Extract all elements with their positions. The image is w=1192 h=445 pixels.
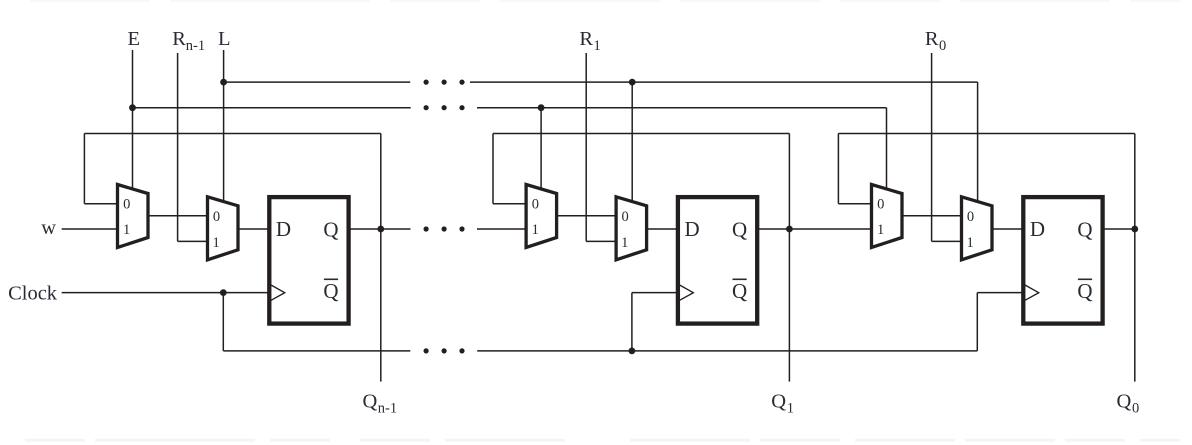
svg-text:Clock: Clock	[8, 282, 58, 304]
wire mux1 output to mux2 input 0 (stage Qn-1)	[148, 215, 208, 217]
wire into mux1 input 0 (stage Qn-1)	[84, 203, 117, 205]
svg-text:1: 1	[212, 235, 219, 251]
2-to-1 multiplexer (shift/load mux1, stage Q0)	[872, 185, 903, 248]
junction bottom clock line / stage Q1 up-leg	[629, 348, 636, 355]
faint cropped text line at top edge	[30, 0, 1180, 2]
svg-text:n-1: n-1	[378, 400, 397, 416]
ellipsis dot (E-bus)	[459, 105, 464, 110]
svg-text:Q: Q	[732, 279, 747, 303]
svg-text:L: L	[218, 28, 231, 50]
wire Q1 feedback left down-leg	[492, 134, 494, 204]
clock input triangle (stage Q1)	[680, 285, 694, 300]
wire E label down to mux1 select	[132, 50, 134, 189]
wire w input to mux1 input 1	[62, 228, 118, 230]
wire Q1 feedback vertical up from output node	[788, 134, 790, 230]
wire Clock up-leg (stage Q1)	[631, 293, 633, 351]
wire Q1 to mux1 input 1 (stage Q0)	[789, 228, 871, 230]
wire Qn-1 feedback top horizontal	[84, 133, 380, 135]
svg-text:Q: Q	[771, 391, 786, 413]
svg-text:Q: Q	[732, 217, 747, 241]
wire Clock bottom right segment	[477, 350, 977, 352]
wire R0 to mux2 input 1 (stage Q0)	[932, 240, 962, 242]
wire Rn-1 to mux2 input 1 (stage Qn-1)	[178, 240, 208, 242]
wire Clock down-leg to bottom distribution line	[222, 293, 224, 351]
ellipsis dot (E-bus)	[424, 105, 429, 110]
2-to-1 multiplexer (load mux2, stage Q0)	[962, 197, 993, 260]
wire Clock to flip-flop (stage Q0)	[977, 292, 1023, 294]
svg-text:0: 0	[877, 196, 884, 212]
wire into mux1 input 0 (stage Q1)	[493, 203, 526, 205]
ellipsis dot (clock line)	[424, 348, 429, 353]
ellipsis dot (clock line)	[442, 348, 447, 353]
wire L-bus end drop to mux2 select (stage Q0)	[977, 82, 979, 201]
2-to-1 multiplexer (shift/load mux1, stage Q1)	[526, 185, 557, 248]
svg-text:1: 1	[621, 235, 628, 251]
svg-text:D: D	[685, 217, 700, 241]
svg-text:Q: Q	[1077, 217, 1092, 241]
wire Qn-1 feedback vertical up from output node	[380, 134, 382, 230]
ellipsis dot (shift chain)	[459, 226, 464, 231]
wire R1 to mux2 input 1 (stage Q1)	[586, 240, 616, 242]
ellipsis dot (shift chain)	[442, 226, 447, 231]
D flip-flop (stage Q1)	[678, 197, 757, 324]
wire mux2 output to D input (stage Q1)	[647, 228, 678, 230]
wire L-bus upper segment (net L)	[224, 81, 411, 83]
wire E-bus right segment to stage0	[477, 107, 887, 109]
ellipsis dot (shift chain)	[424, 226, 429, 231]
wire mux2 output to D input (stage Q0)	[992, 228, 1023, 230]
wire into mux1 input 1 (stage Q1)	[477, 228, 526, 230]
clock input triangle (stage Q0)	[1025, 285, 1039, 300]
svg-text:Q: Q	[1117, 391, 1132, 413]
wire Rn-1 label down to mux2 input 1 level	[177, 53, 179, 241]
svg-text:Q: Q	[323, 217, 338, 241]
wire Q0 feedback left down-leg	[837, 134, 839, 204]
wire Q0 feedback vertical up from output node	[1134, 134, 1136, 230]
wire Clock input to first flip-flop	[62, 292, 270, 294]
node Qn-1 output junction	[377, 226, 384, 233]
svg-text:0: 0	[123, 196, 130, 212]
svg-text:Q: Q	[1077, 279, 1092, 303]
junction E line / E-bus	[129, 104, 136, 111]
wire Q output (stage Qn-1)	[349, 228, 381, 230]
svg-text:0: 0	[213, 209, 220, 225]
svg-text:Q: Q	[363, 391, 378, 413]
wire Q output (stage Q0)	[1103, 228, 1135, 230]
wire R0 label down to mux2 input 1 level	[931, 53, 933, 241]
wire output node down to Qn-1 label	[380, 229, 382, 382]
wire output node down to Q1 label	[788, 229, 790, 382]
wire mux2 output to D input (stage Qn-1)	[238, 228, 269, 230]
wire Qn-1 toward next stage (left segment)	[381, 228, 411, 230]
2-to-1 multiplexer (load mux2, stage Qn-1)	[208, 197, 239, 260]
junction E-bus / stage Q1 select drop	[538, 104, 545, 111]
svg-text:0: 0	[621, 209, 628, 225]
D flip-flop (stage Q0)	[1023, 197, 1102, 324]
svg-text:w: w	[41, 217, 56, 239]
wire E-bus drop to mux1 select (stage Q1)	[540, 108, 542, 189]
wire L-bus drop to mux2 select (stage Q1)	[631, 82, 633, 201]
node Q0 output junction	[1131, 226, 1138, 233]
ellipsis dot (L-bus)	[459, 80, 464, 85]
node Q1 output junction	[786, 226, 793, 233]
svg-text:R: R	[925, 28, 939, 50]
svg-text:0: 0	[1132, 400, 1139, 416]
wire mux1 output to mux2 input 0 (stage Q0)	[902, 215, 962, 217]
wire L-bus right segment to stage0	[470, 81, 978, 83]
ellipsis dot (L-bus)	[442, 80, 447, 85]
2-to-1 multiplexer (shift/load mux1, stage Qn-1)	[118, 185, 149, 248]
wire mux1 output to mux2 input 0 (stage Q1)	[557, 215, 617, 217]
wire Q0 feedback top horizontal	[838, 133, 1134, 135]
svg-text:n-1: n-1	[186, 38, 205, 54]
svg-text:R: R	[579, 28, 593, 50]
svg-text:D: D	[276, 217, 291, 241]
ellipsis dot (L-bus)	[424, 80, 429, 85]
wire Clock up-leg (stage Q0)	[976, 293, 978, 351]
svg-text:E: E	[128, 28, 141, 50]
svg-text:Q: Q	[323, 279, 338, 303]
ellipsis dot (clock line)	[459, 348, 464, 353]
wire output node down to Q0 label	[1134, 229, 1136, 382]
svg-text:0: 0	[532, 196, 539, 212]
svg-text:1: 1	[966, 235, 973, 251]
junction L line / L-bus	[220, 79, 227, 86]
svg-text:0: 0	[967, 209, 974, 225]
svg-text:R: R	[172, 28, 186, 50]
wire Clock to flip-flop (stage Q1)	[632, 292, 678, 294]
svg-text:1: 1	[594, 38, 601, 54]
ellipsis dot (E-bus)	[442, 105, 447, 110]
svg-text:0: 0	[939, 38, 946, 54]
wire into mux1 input 0 (stage Q0)	[838, 203, 871, 205]
wire E-bus end drop to mux1 select (stage Q0)	[886, 108, 888, 189]
junction L-bus / stage Q1 select drop	[629, 79, 636, 86]
clock input triangle (stage Qn-1)	[271, 285, 285, 300]
wire E-bus upper segment (net E)	[133, 107, 411, 109]
wire Q output (stage Q1)	[757, 228, 789, 230]
junction Clock wire / bottom distribution drop	[220, 289, 227, 296]
wire Clock distribution bottom segment	[223, 350, 410, 352]
svg-text:1: 1	[787, 400, 794, 416]
svg-text:1: 1	[532, 222, 539, 238]
2-to-1 multiplexer (load mux2, stage Q1)	[616, 197, 647, 260]
svg-text:D: D	[1030, 217, 1045, 241]
svg-text:1: 1	[877, 222, 884, 238]
wire Q1 feedback top horizontal	[493, 133, 789, 135]
svg-text:1: 1	[123, 222, 130, 238]
D flip-flop (stage Qn-1)	[269, 197, 348, 324]
wire R1 label down to mux2 input 1 level	[585, 53, 587, 241]
faint cropped text line at bottom edge	[25, 439, 1180, 442]
wire L label down to mux2 select	[223, 50, 225, 201]
wire Qn-1 feedback left down-leg	[83, 134, 85, 204]
